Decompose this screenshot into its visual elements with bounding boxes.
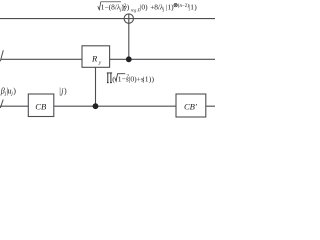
svg-text:+8/λj: +8/λj xyxy=(150,3,165,13)
svg-text:y: y xyxy=(98,60,102,66)
CNOT target (oplus) on top wire xyxy=(124,14,133,23)
middle formula: product symbol (drawn) xyxy=(107,73,112,83)
svg-text:|j): |j) xyxy=(59,87,67,96)
svg-text:CB′: CB′ xyxy=(184,102,197,112)
svg-text:|γ): |γ) xyxy=(122,3,129,12)
gate CB box xyxy=(28,94,54,117)
gate CB-prime box xyxy=(176,94,206,117)
gate Ry box xyxy=(82,46,110,68)
svg-text:|0): |0) xyxy=(140,3,148,12)
control wire from middle register up to CNOT target xyxy=(128,14,130,59)
svg-text:R: R xyxy=(91,53,98,63)
middle formula: radical of sqrt(1-s^2) xyxy=(115,74,126,82)
control dot on bottom wire xyxy=(93,103,99,109)
wire: top qubit line xyxy=(0,18,215,20)
svg-text:|1): |1) xyxy=(166,3,174,12)
wire: bottom register line xyxy=(0,105,215,107)
top formula: radical sign of sqrt(1-(8/lambda_j)^2) xyxy=(98,2,121,10)
control wire from Ry down to bottom register xyxy=(95,67,97,106)
top formula: superscript otimes symbol xyxy=(174,3,177,6)
control dot on middle wire xyxy=(126,56,132,62)
svg-text:): ) xyxy=(13,86,16,95)
svg-text:CB: CB xyxy=(35,102,47,112)
svg-text:|1): |1) xyxy=(188,3,197,12)
bus slash on middle wire xyxy=(0,50,3,61)
bus slash on bottom wire xyxy=(0,100,3,108)
wire: middle register line xyxy=(1,58,216,60)
svg-text:|1)): |1)) xyxy=(143,74,154,83)
